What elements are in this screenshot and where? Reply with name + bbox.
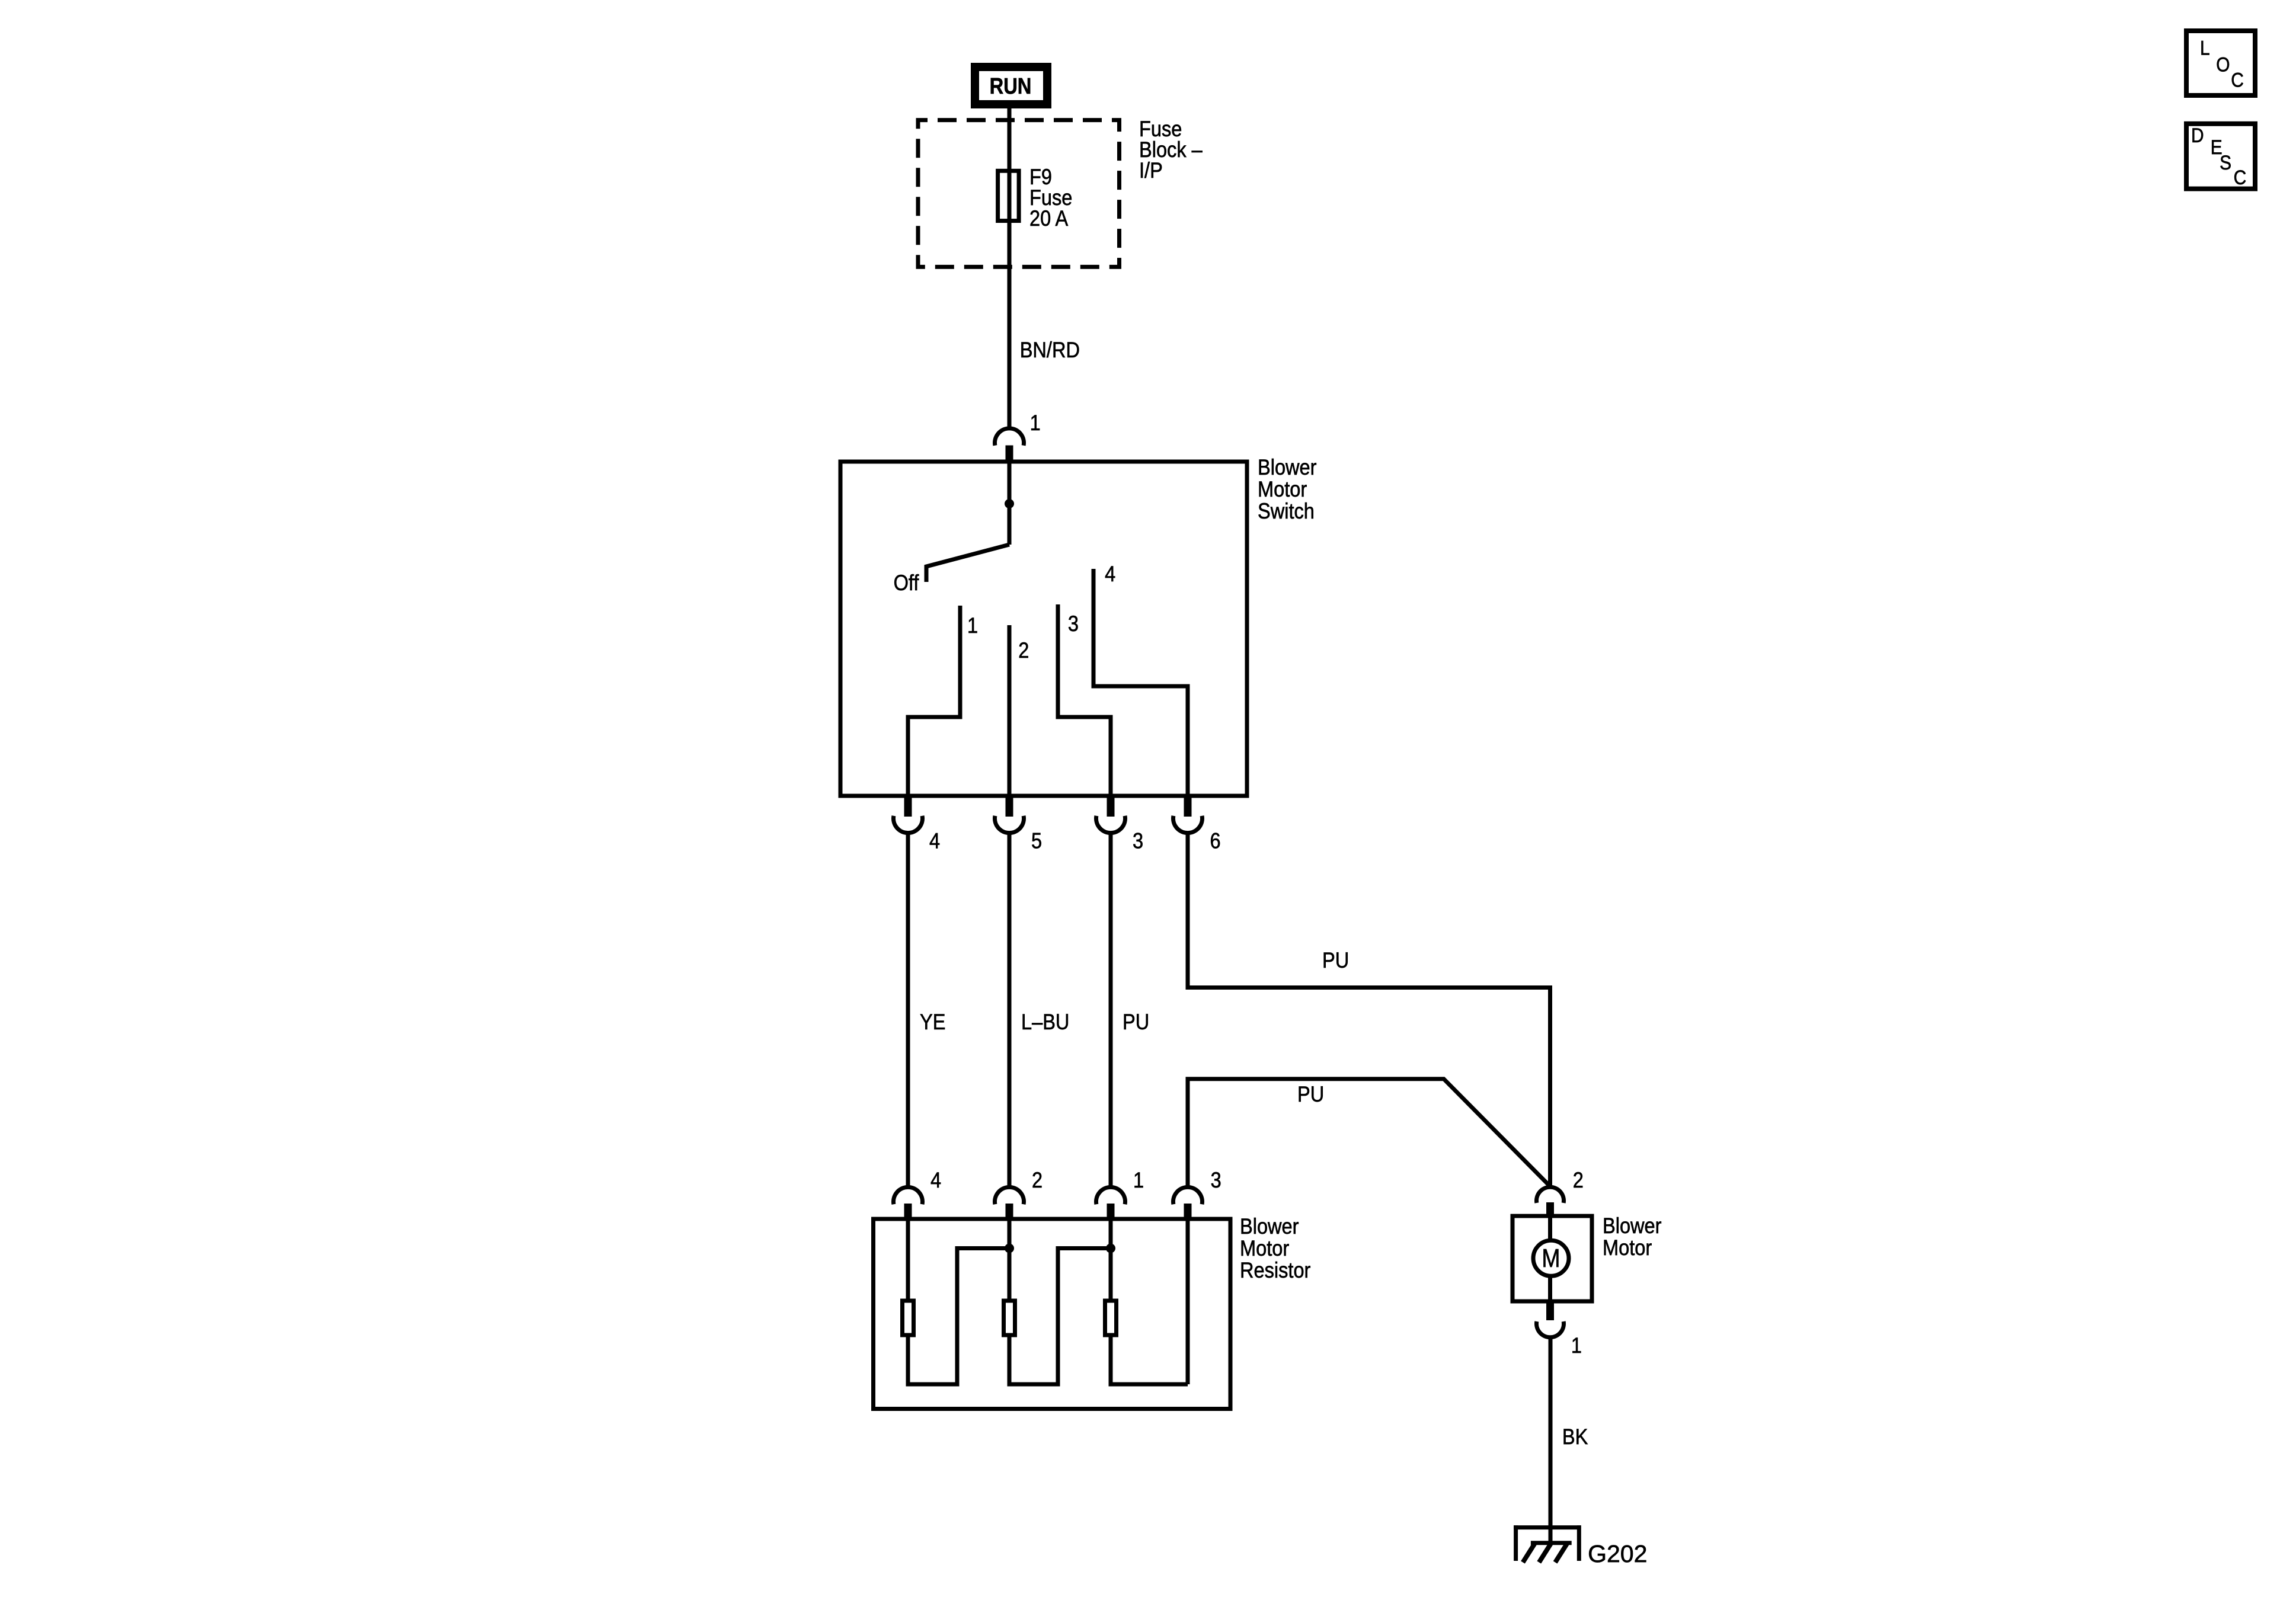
wire BK to ground — [1549, 1337, 1553, 1543]
svg-text:Switch: Switch — [1258, 499, 1315, 523]
svg-text:RUN: RUN — [990, 73, 1032, 99]
fuse F9 symbol — [998, 171, 1019, 220]
svg-text:Blower: Blower — [1258, 455, 1317, 479]
motor return wire inside box — [1548, 1276, 1552, 1301]
svg-text:C: C — [2234, 166, 2247, 188]
svg-text:L: L — [2200, 37, 2210, 59]
connector terminal 2 at motor (dome) — [1537, 1187, 1564, 1203]
svg-text:6: 6 — [1210, 829, 1221, 853]
svg-text:S: S — [2220, 151, 2231, 174]
stub into motor — [1546, 1202, 1554, 1218]
svg-text:PU: PU — [1322, 948, 1349, 972]
svg-text:20 A: 20 A — [1029, 206, 1069, 231]
svg-text:Motor: Motor — [1258, 477, 1307, 501]
svg-text:1: 1 — [967, 613, 978, 638]
svg-text:3: 3 — [1068, 612, 1079, 636]
svg-text:4: 4 — [929, 829, 940, 853]
stub out of motor — [1546, 1300, 1554, 1321]
svg-text:O: O — [2216, 53, 2230, 76]
junction dot on common — [1005, 499, 1014, 508]
switch common wire — [1008, 462, 1012, 545]
resistor R1 branch wire — [906, 1219, 910, 1301]
wire R1 bottom to node A — [908, 1249, 1009, 1385]
svg-text:D: D — [2191, 124, 2204, 146]
wire resistor pin 3 column — [1186, 1219, 1190, 1384]
wire YE — [906, 833, 910, 1188]
svg-text:Blower: Blower — [1603, 1214, 1662, 1238]
ignition RUN terminal box — [975, 67, 1047, 104]
svg-text:Off: Off — [894, 571, 919, 595]
switch throw 1 wire — [908, 606, 960, 798]
switch throw 3 wire — [1058, 604, 1111, 798]
svg-text:3: 3 — [1211, 1168, 1221, 1192]
svg-text:BK: BK — [1562, 1425, 1588, 1449]
svg-text:1: 1 — [1133, 1168, 1144, 1192]
wire PU (resistor 3 to motor 2) — [1188, 1079, 1550, 1188]
connector terminal 5 below switch — [1006, 796, 1013, 817]
connector terminal 4 at resistor — [893, 1187, 922, 1204]
svg-text:4: 4 — [1105, 562, 1115, 586]
wire R3 bottom to pin 3 column — [1111, 1335, 1188, 1384]
svg-text:YE: YE — [920, 1010, 945, 1034]
svg-text:PU: PU — [1297, 1082, 1324, 1106]
svg-text:L–BU: L–BU — [1021, 1010, 1069, 1034]
switch lever to Off position — [926, 545, 1009, 582]
svg-text:1: 1 — [1571, 1333, 1582, 1358]
svg-text:Blower: Blower — [1240, 1214, 1299, 1238]
junction node B — [1106, 1244, 1115, 1253]
motor symbol circle — [1533, 1240, 1569, 1276]
svg-text:M: M — [1542, 1243, 1560, 1273]
svg-text:2: 2 — [1032, 1168, 1043, 1192]
Blower Motor Switch box — [840, 462, 1247, 796]
svg-text:PU: PU — [1123, 1010, 1149, 1034]
svg-text:BN/RD: BN/RD — [1020, 338, 1080, 362]
switch throw 2 wire — [1008, 625, 1012, 798]
resistor R2 — [1004, 1301, 1015, 1335]
motor feed wire inside box — [1548, 1216, 1552, 1240]
stub into switch — [1006, 446, 1013, 464]
connector terminal 4 below switch — [904, 796, 912, 817]
wire PU high speed (switch 6 to motor 2) — [1188, 833, 1550, 1188]
svg-text:5: 5 — [1031, 829, 1042, 853]
Blower Motor box — [1512, 1216, 1592, 1301]
wire L-BU — [1008, 833, 1012, 1188]
junction node A — [1005, 1244, 1014, 1253]
connector terminal 1 at motor (cup) — [1537, 1321, 1564, 1337]
svg-text:4: 4 — [930, 1168, 941, 1192]
svg-text:2: 2 — [1573, 1168, 1584, 1192]
svg-text:Motor: Motor — [1240, 1236, 1290, 1260]
connector terminal 1 at switch (dome) — [995, 428, 1024, 446]
svg-text:3: 3 — [1133, 829, 1143, 853]
resistor R3 branch wire — [1109, 1219, 1113, 1301]
svg-text:I/P: I/P — [1139, 158, 1163, 183]
resistor R3 — [1105, 1301, 1117, 1335]
svg-text:1: 1 — [1030, 411, 1041, 435]
connector terminal 3 at resistor — [1173, 1187, 1203, 1204]
ground G202 symbol — [1514, 1525, 1581, 1562]
svg-text:Motor: Motor — [1603, 1236, 1652, 1260]
connector terminal 6 below switch — [1184, 796, 1192, 817]
resistor R2 branch wire — [1008, 1219, 1012, 1301]
LOC reference box — [2186, 31, 2255, 95]
resistor R1 — [903, 1301, 914, 1335]
DESC reference box — [2186, 124, 2255, 189]
svg-text:2: 2 — [1018, 638, 1029, 663]
Fuse Block - I/P dashed box — [918, 120, 1120, 267]
wire PU (switch 3 to resistor 1) — [1109, 833, 1113, 1188]
connector terminal 2 at resistor — [995, 1187, 1024, 1204]
svg-text:Resistor: Resistor — [1240, 1258, 1311, 1282]
wire R2 bottom to node B — [1009, 1249, 1111, 1385]
Blower Motor Resistor box — [874, 1219, 1231, 1409]
svg-text:G202: G202 — [1588, 1540, 1647, 1567]
switch throw 4 wire — [1093, 569, 1188, 798]
connector terminal 1 at resistor — [1096, 1187, 1125, 1204]
wire: RUN feed through fuse F9 down to switch connector — [1008, 104, 1012, 428]
connector terminal 3 below switch — [1107, 796, 1115, 817]
svg-text:C: C — [2231, 69, 2244, 91]
